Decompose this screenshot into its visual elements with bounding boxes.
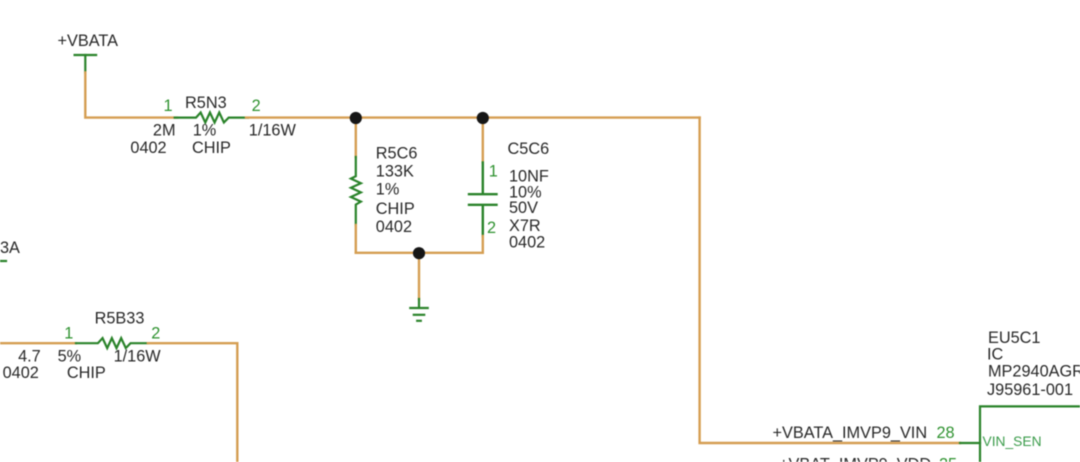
wire R5N3 pin 2 to right corner xyxy=(246,116,700,118)
resistor R5B33 xyxy=(76,338,148,348)
junction at R5C6 top xyxy=(350,112,362,124)
svg-text:0402: 0402 xyxy=(509,234,545,252)
op-amp U1 EU5C1 IC box xyxy=(980,406,1080,462)
svg-text:+VBATA: +VBATA xyxy=(58,32,119,50)
wire bottom of R5C6 xyxy=(355,225,357,253)
wire top of R5C6 xyxy=(355,118,357,157)
svg-text:1%: 1% xyxy=(193,122,217,140)
wire bottom of C5C6 xyxy=(482,236,484,253)
resistor R5N3 xyxy=(175,113,248,123)
svg-text:EU5C1: EU5C1 xyxy=(988,329,1041,347)
svg-text:+VBAT_IMVP9_VDD: +VBAT_IMVP9_VDD xyxy=(779,455,931,462)
svg-text:0402: 0402 xyxy=(376,218,412,236)
svg-text:1%: 1% xyxy=(376,181,400,199)
svg-text:0402: 0402 xyxy=(130,139,166,157)
wire from +VBATA to R5N3 pin 1 xyxy=(85,73,177,118)
svg-text:1/16W: 1/16W xyxy=(114,348,162,366)
svg-text:2: 2 xyxy=(487,219,496,237)
ground xyxy=(410,299,427,321)
pin lead VIN_SEN xyxy=(960,442,980,444)
svg-text:3A: 3A xyxy=(0,239,20,257)
svg-text:X7R: X7R xyxy=(509,217,541,235)
wire top of C5C6 xyxy=(482,118,484,163)
svg-text:28: 28 xyxy=(937,424,955,442)
svg-text:MP2940AGRT: MP2940AGRT xyxy=(988,363,1080,381)
wire bottom loop xyxy=(356,252,483,254)
svg-text:R5B33: R5B33 xyxy=(95,310,145,328)
resistor R5C6 xyxy=(351,157,361,225)
svg-text:1/16W: 1/16W xyxy=(249,122,297,140)
svg-text:1: 1 xyxy=(489,163,498,181)
svg-text:J95961-001: J95961-001 xyxy=(987,381,1073,399)
svg-text:+VBATA_IMVP9_VIN: +VBATA_IMVP9_VIN xyxy=(773,424,928,442)
svg-text:0402: 0402 xyxy=(3,364,39,382)
power symbol +VBATA xyxy=(75,55,97,73)
svg-text:1: 1 xyxy=(164,97,173,115)
wire right vertical to IC xyxy=(700,118,960,443)
svg-text:CHIP: CHIP xyxy=(376,200,415,218)
wire to ground xyxy=(418,253,420,299)
wire R5B33 pin 2 down xyxy=(148,343,237,462)
svg-text:2M: 2M xyxy=(153,122,176,140)
svg-text:CHIP: CHIP xyxy=(67,364,106,382)
net stub under 3A xyxy=(0,260,6,262)
junction at ground stub xyxy=(413,247,425,259)
svg-text:4.7: 4.7 xyxy=(18,348,41,366)
svg-text:25: 25 xyxy=(939,455,957,462)
svg-text:1: 1 xyxy=(64,325,73,343)
svg-text:R5N3: R5N3 xyxy=(185,94,227,112)
svg-text:IC: IC xyxy=(987,346,1004,364)
svg-text:CHIP: CHIP xyxy=(192,139,231,157)
svg-text:5%: 5% xyxy=(58,348,82,366)
svg-text:2: 2 xyxy=(151,325,160,343)
wire into R5B33 pin 1 xyxy=(0,342,76,344)
capacitor C5C6 xyxy=(469,163,497,237)
svg-text:50V: 50V xyxy=(509,199,538,217)
junction at C5C6 top xyxy=(477,112,489,124)
svg-text:VIN_SEN: VIN_SEN xyxy=(983,434,1042,449)
svg-text:C5C6: C5C6 xyxy=(508,140,550,158)
svg-text:133K: 133K xyxy=(376,163,414,181)
svg-text:2: 2 xyxy=(252,97,261,115)
svg-text:R5C6: R5C6 xyxy=(376,144,418,162)
